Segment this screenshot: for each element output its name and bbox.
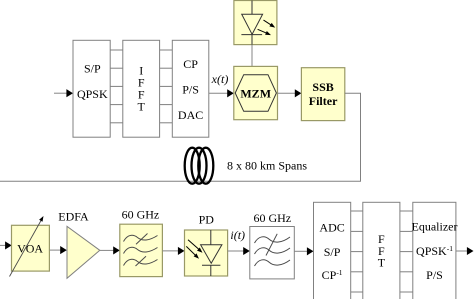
wire: DAC to MZM — [209, 89, 234, 97]
svg-text:CP: CP — [183, 57, 198, 71]
optical 60 GHz filter block — [120, 208, 163, 277]
bus: S/P QPSK to IFFT (5 lines) — [110, 50, 123, 123]
svg-text:ADC: ADC — [319, 221, 344, 235]
block FFT — [363, 202, 400, 299]
svg-text:T: T — [378, 256, 386, 270]
wire: transmitter input arrow — [54, 89, 73, 97]
bus: ADC to FFT (5 lines) — [351, 211, 363, 292]
svg-text:T: T — [138, 100, 146, 114]
wire: MZM to SSB filter — [278, 89, 302, 97]
bus: FFT to Equalizer (5 lines) — [400, 211, 413, 292]
svg-text:60 GHz: 60 GHz — [253, 211, 291, 225]
block IFFT — [123, 40, 160, 137]
bus: IFFT to CP/PS/DAC (5 lines) — [160, 50, 173, 123]
svg-text:P/S: P/S — [182, 82, 199, 96]
SSB filter block — [301, 68, 344, 121]
wire: VOA to EDFA — [49, 246, 66, 254]
svg-text:8 x 80 km Spans: 8 x 80 km Spans — [227, 158, 307, 172]
svg-text:P/S: P/S — [426, 268, 443, 282]
svg-text:SSB: SSB — [312, 80, 333, 94]
svg-text:x(t): x(t) — [211, 72, 229, 86]
svg-text:PD: PD — [199, 213, 215, 227]
svg-text:VOA: VOA — [17, 242, 43, 256]
laser diode box — [234, 1, 277, 45]
svg-text:S/P: S/P — [84, 62, 101, 76]
svg-text:EDFA: EDFA — [58, 210, 89, 224]
block CP P/S DAC — [172, 40, 209, 137]
wire: receiver input arrow into VOA — [0, 241, 12, 249]
svg-text:Filter: Filter — [309, 94, 338, 108]
wire: laser to MZM — [251, 35, 253, 45]
block S/P QPSK — [73, 40, 110, 137]
svg-text:Equalizer: Equalizer — [412, 220, 458, 234]
svg-text:DAC: DAC — [178, 108, 203, 122]
wire: receiver output arrow — [456, 247, 474, 255]
block ADC S/P CP-1 — [314, 202, 351, 299]
fiber coil (8 x 80 km spans) — [185, 148, 214, 184]
wire: filter to PD — [162, 247, 184, 255]
svg-text:i(t): i(t) — [230, 228, 245, 242]
block Equalizer QPSK-1 P/S — [412, 202, 458, 299]
MZM modulator — [234, 66, 278, 119]
VOA block — [10, 216, 50, 277]
wire: filter to ADC — [294, 247, 313, 255]
svg-text:S/P: S/P — [324, 245, 341, 259]
svg-text:MZM: MZM — [240, 86, 271, 100]
svg-text:60 GHz: 60 GHz — [122, 208, 160, 222]
EDFA amplifier — [58, 210, 100, 279]
wire: PD to electrical 60 GHz filter — [228, 247, 250, 255]
electrical 60 GHz filter block — [250, 211, 294, 279]
svg-text:QPSK: QPSK — [77, 87, 108, 101]
wire: SSB output looping down to fiber span line — [0, 93, 361, 181]
PD photodiode block — [185, 213, 228, 277]
wire: EDFA to 60 GHz filter — [100, 246, 120, 254]
